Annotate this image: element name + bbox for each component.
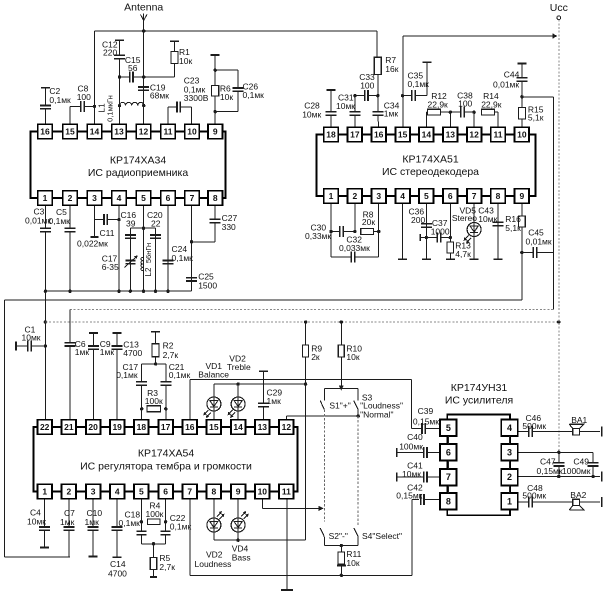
capacitor C13	[111, 333, 142, 420]
svg-text:6: 6	[448, 191, 453, 201]
capacitor C39	[413, 406, 441, 434]
svg-text:1мк: 1мк	[384, 108, 399, 118]
switch S3	[354, 388, 403, 419]
svg-text:22: 22	[151, 219, 161, 229]
svg-text:10к: 10к	[179, 56, 192, 66]
svg-text:16: 16	[185, 422, 195, 432]
op-amp U4 KR174UN31 amplifier IC	[440, 382, 518, 515]
svg-text:5,1к: 5,1к	[528, 113, 544, 123]
capacitor C49	[562, 456, 599, 476]
capacitor C12	[102, 39, 125, 127]
svg-text:13: 13	[258, 422, 268, 432]
svg-text:10мк: 10мк	[302, 110, 321, 120]
svg-text:6: 6	[166, 193, 171, 203]
svg-text:КР174ХА51: КР174ХА51	[402, 154, 458, 166]
svg-text:100к: 100к	[146, 509, 164, 519]
capacitor C37	[420, 218, 450, 243]
svg-text:0,1мкГн: 0,1мкГн	[106, 95, 115, 122]
wire S3 box top bar	[324, 386, 358, 391]
svg-text:2: 2	[68, 193, 73, 203]
svg-text:3300В: 3300В	[184, 93, 209, 103]
svg-text:1мк: 1мк	[100, 347, 115, 357]
svg-text:BA2: BA2	[570, 490, 586, 500]
svg-text:3: 3	[507, 447, 512, 457]
capacitor C29	[258, 371, 283, 420]
svg-text:0,1мк: 0,1мк	[169, 370, 191, 380]
svg-text:S1"+": S1"+"	[329, 401, 350, 411]
LED VD4	[231, 499, 251, 562]
svg-text:14: 14	[233, 422, 243, 432]
svg-text:1: 1	[329, 191, 334, 201]
svg-text:0,1мк: 0,1мк	[243, 90, 265, 100]
capacitor C10	[85, 499, 103, 556]
wire pin4 line	[118, 205, 120, 291]
node arrow into Ucc rail	[553, 33, 558, 38]
capacitor C38	[450, 90, 476, 127]
svg-text:11: 11	[164, 127, 173, 137]
svg-text:0,15мк: 0,15мк	[537, 466, 563, 476]
svg-text:100: 100	[360, 80, 374, 90]
svg-text:1мк: 1мк	[267, 396, 282, 406]
svg-text:0,01мк: 0,01мк	[526, 236, 552, 246]
capacitor C48	[518, 483, 572, 508]
svg-text:10мк: 10мк	[478, 214, 497, 224]
svg-text:3: 3	[91, 487, 96, 497]
svg-text:16: 16	[40, 127, 50, 137]
svg-text:4: 4	[507, 423, 512, 433]
svg-text:12: 12	[469, 130, 479, 140]
svg-text:3: 3	[376, 191, 381, 201]
wire pin3 rail	[518, 451, 594, 463]
capacitor C17b bracket	[116, 362, 190, 420]
resistor R15	[518, 104, 543, 127]
svg-text:7: 7	[472, 191, 477, 201]
svg-text:10мк: 10мк	[22, 332, 41, 342]
svg-text:330: 330	[222, 222, 236, 232]
capacitor C6	[65, 339, 90, 420]
capacitor C1	[16, 324, 45, 351]
wire bus V1 (left edge)	[5, 253, 522, 558]
svg-text:0,1мк: 0,1мк	[49, 216, 71, 226]
svg-text:1: 1	[42, 487, 47, 497]
capacitor C4	[27, 499, 50, 547]
resistor R9	[303, 322, 323, 540]
svg-text:Treble: Treble	[227, 362, 251, 372]
inductor L2	[141, 243, 153, 277]
wire pin12 to S3	[286, 410, 360, 420]
wire bus V2	[70, 253, 553, 343]
svg-text:9: 9	[236, 487, 241, 497]
switch S4	[354, 528, 402, 546]
capacitor C24	[163, 205, 194, 291]
svg-text:5: 5	[424, 191, 429, 201]
svg-text:1мк: 1мк	[60, 517, 75, 527]
capacitor C15	[120, 55, 144, 83]
svg-text:1: 1	[43, 193, 48, 203]
capacitor C20	[147, 210, 163, 238]
capacitor C44	[493, 64, 527, 108]
svg-text:10мк: 10мк	[27, 517, 46, 527]
svg-text:39: 39	[126, 219, 136, 229]
capacitor C19	[138, 83, 169, 101]
svg-text:Balance: Balance	[198, 369, 229, 379]
resistor R13	[446, 204, 471, 259]
svg-text:ИС радиоприемника: ИС радиоприемника	[88, 167, 188, 179]
capacitor C2	[40, 86, 71, 124]
svg-text:10: 10	[258, 487, 268, 497]
LED VD1	[198, 361, 229, 420]
resistor R7	[374, 55, 398, 96]
svg-text:12: 12	[139, 127, 149, 137]
svg-text:20: 20	[88, 422, 98, 432]
svg-text:16к: 16к	[385, 64, 398, 74]
power Ucc terminal	[550, 2, 568, 20]
svg-text:"Normal": "Normal"	[360, 410, 393, 420]
svg-text:0,33мк: 0,33мк	[305, 231, 331, 241]
resistor R6	[211, 55, 234, 124]
capacitor C18	[119, 499, 147, 544]
svg-text:14: 14	[422, 130, 432, 140]
svg-text:19: 19	[112, 422, 122, 432]
svg-text:100к: 100к	[145, 396, 163, 406]
capacitor C40	[397, 432, 441, 458]
capacitor C31	[336, 93, 360, 128]
svg-text:2: 2	[67, 487, 72, 497]
svg-text:21: 21	[64, 422, 74, 432]
svg-text:11: 11	[494, 130, 503, 140]
wire switch gang right	[357, 416, 359, 527]
LED VD5	[452, 204, 481, 259]
svg-text:L2: L2	[144, 267, 153, 276]
capacitor C42	[396, 482, 440, 505]
svg-text:7: 7	[190, 193, 195, 203]
svg-text:4: 4	[117, 193, 122, 203]
svg-text:4700: 4700	[123, 348, 142, 358]
svg-text:6: 6	[446, 447, 451, 457]
LED VD2 loudness	[195, 499, 232, 569]
svg-text:68мк: 68мк	[150, 91, 169, 101]
capacitor C43	[478, 204, 503, 259]
svg-text:4: 4	[115, 487, 120, 497]
capacitor C35	[401, 62, 432, 101]
wire C44 to V2 drop	[522, 97, 553, 253]
svg-text:0,022мк: 0,022мк	[77, 239, 108, 249]
capacitor C34	[372, 96, 399, 128]
svg-text:100мк: 100мк	[399, 441, 423, 451]
wire LED top rail to R9	[214, 382, 307, 385]
svg-text:5: 5	[139, 487, 144, 497]
svg-text:Stereo: Stereo	[452, 213, 477, 223]
svg-text:18: 18	[137, 422, 147, 432]
resistor R10	[338, 322, 362, 386]
svg-text:C11: C11	[100, 228, 115, 238]
capacitor C33	[355, 72, 380, 101]
svg-text:10мк: 10мк	[336, 101, 355, 111]
svg-text:Antenna: Antenna	[124, 2, 163, 14]
resistor R1	[144, 41, 193, 77]
svg-text:56: 56	[128, 63, 138, 73]
capacitor C9	[88, 333, 114, 420]
svg-text:7: 7	[187, 487, 192, 497]
svg-text:11: 11	[282, 487, 291, 497]
wire pin10 select line	[262, 499, 323, 511]
svg-text:56нГн: 56нГн	[144, 243, 153, 263]
wire switch common	[324, 544, 358, 547]
svg-text:0,1мк: 0,1мк	[170, 522, 192, 532]
capacitor C3	[25, 205, 51, 420]
svg-text:0,1мк: 0,1мк	[408, 79, 430, 89]
resistor R8	[361, 209, 381, 234]
wire pin11 down	[281, 499, 293, 590]
capacitor C41	[397, 461, 441, 483]
speaker BA1	[569, 415, 602, 437]
svg-text:10к: 10к	[346, 558, 359, 568]
trimmer capacitor C17	[102, 254, 138, 273]
resistor R2	[151, 332, 178, 366]
svg-text:10: 10	[517, 130, 527, 140]
svg-text:КР174УН31: КР174УН31	[451, 382, 508, 394]
wire top rail to R7	[95, 31, 378, 124]
capacitor C26	[215, 70, 264, 112]
svg-text:0,1мк: 0,1мк	[119, 518, 141, 528]
capacitor C23	[168, 76, 209, 125]
svg-text:8: 8	[446, 496, 451, 506]
svg-text:10к: 10к	[220, 92, 233, 102]
resistor R4	[140, 501, 168, 525]
wire pin16 audio line	[190, 379, 421, 428]
capacitor C36	[409, 204, 432, 259]
capacitor C28	[302, 90, 336, 127]
capacitor C45	[522, 228, 553, 258]
svg-text:2,7к: 2,7к	[159, 562, 175, 572]
svg-text:2к: 2к	[311, 352, 320, 362]
capacitor C47	[537, 452, 565, 476]
svg-text:КР174ХА34: КР174ХА34	[110, 155, 166, 167]
svg-text:6-35: 6-35	[102, 262, 119, 272]
svg-text:10: 10	[187, 127, 197, 137]
capacitor C11	[77, 205, 121, 248]
svg-text:16: 16	[374, 130, 384, 140]
svg-text:Loudness: Loudness	[195, 559, 232, 569]
svg-text:S4"Select": S4"Select"	[362, 531, 402, 541]
resistor R14	[481, 91, 502, 127]
svg-text:1: 1	[507, 496, 512, 506]
svg-text:12: 12	[282, 422, 292, 432]
svg-text:8: 8	[212, 487, 217, 497]
svg-text:ИС усилителя: ИС усилителя	[445, 394, 513, 406]
svg-text:0,01мк: 0,01мк	[25, 216, 51, 226]
svg-text:1мк: 1мк	[85, 517, 100, 527]
svg-text:S2"-": S2"-"	[329, 531, 348, 541]
node supply tap	[44, 320, 47, 347]
svg-text:18: 18	[326, 130, 336, 140]
svg-text:0,15мк: 0,15мк	[413, 416, 439, 426]
capacitor C7	[60, 499, 75, 557]
svg-text:Ucc: Ucc	[550, 2, 568, 14]
svg-text:5,1к: 5,1к	[505, 223, 521, 233]
svg-text:200: 200	[411, 215, 425, 225]
svg-text:0,1мк: 0,1мк	[49, 95, 71, 105]
capacitor C8	[70, 84, 96, 125]
capacitor C27	[192, 205, 238, 242]
svg-text:9: 9	[213, 127, 218, 137]
wire pin4 stub	[398, 204, 407, 259]
svg-text:5: 5	[446, 423, 451, 433]
svg-text:C44: C44	[504, 70, 520, 80]
svg-text:500мк: 500мк	[522, 421, 546, 431]
wire antenna lead	[141, 14, 147, 128]
wire ground bus of U1	[45, 290, 191, 293]
svg-text:15: 15	[398, 130, 408, 140]
wire bus V3	[45, 320, 560, 323]
power Ucc rail	[558, 20, 560, 453]
svg-text:Bass: Bass	[232, 552, 251, 562]
svg-text:100: 100	[77, 92, 91, 102]
svg-text:5: 5	[141, 193, 146, 203]
svg-text:C14: C14	[110, 559, 126, 569]
svg-text:C39: C39	[418, 406, 434, 416]
svg-text:0,01мк: 0,01мк	[493, 79, 519, 89]
svg-text:22: 22	[40, 422, 50, 432]
capacitor C30	[305, 204, 357, 257]
svg-text:0,033мк: 0,033мк	[339, 243, 370, 253]
svg-text:220: 220	[103, 48, 117, 58]
resistor R16	[505, 204, 525, 254]
svg-text:1000мк: 1000мк	[562, 466, 591, 476]
svg-text:22,9к: 22,9к	[481, 100, 502, 110]
svg-text:1мк: 1мк	[75, 347, 90, 357]
switch S1	[320, 388, 351, 410]
svg-text:КР174ХА54: КР174ХА54	[138, 448, 194, 460]
capacitor C46	[518, 413, 572, 437]
svg-text:4: 4	[400, 191, 405, 201]
svg-text:500мк: 500мк	[522, 491, 546, 501]
op-amp U2 KR174XA51 stereo decoder IC	[317, 127, 536, 203]
op-amp U1 KR174XA34 radio IC	[31, 124, 226, 205]
svg-text:2: 2	[353, 191, 358, 201]
capacitor C22	[161, 499, 192, 544]
switch S2	[320, 528, 348, 546]
svg-text:0,1мк: 0,1мк	[172, 253, 194, 263]
svg-text:1000: 1000	[431, 227, 450, 237]
svg-text:15: 15	[65, 127, 75, 137]
speaker BA2	[569, 490, 602, 510]
wire switch gang left	[323, 410, 325, 522]
node Antenna label	[124, 2, 163, 14]
svg-text:C47: C47	[540, 456, 556, 466]
wire pin7 audio path	[190, 499, 419, 577]
svg-text:ИС регулятора тембра и громкос: ИС регулятора тембра и громкости	[80, 461, 252, 473]
resistor R11	[337, 546, 362, 576]
LED VD2 treble	[227, 354, 251, 420]
svg-text:17: 17	[350, 130, 360, 140]
svg-text:20к: 20к	[362, 217, 375, 227]
capacitor C5	[49, 205, 76, 291]
svg-text:17: 17	[161, 422, 171, 432]
capacitor C14	[108, 499, 127, 578]
svg-text:8: 8	[213, 193, 218, 203]
svg-text:8: 8	[496, 191, 501, 201]
svg-text:1500: 1500	[198, 281, 217, 291]
svg-text:10к: 10к	[346, 352, 359, 362]
svg-text:100: 100	[458, 99, 472, 109]
op-amp U3 KR174XA54 tone-volume IC	[34, 420, 298, 499]
svg-text:9: 9	[520, 191, 525, 201]
capacitor C16	[121, 210, 137, 238]
svg-text:3: 3	[92, 193, 97, 203]
svg-text:2: 2	[507, 472, 512, 482]
svg-text:2,7к: 2,7к	[163, 350, 179, 360]
svg-text:0,15мк: 0,15мк	[396, 490, 422, 500]
svg-text:13: 13	[114, 127, 124, 137]
svg-text:4,7к: 4,7к	[455, 249, 471, 259]
svg-text:0,1мк: 0,1мк	[116, 370, 138, 380]
svg-text:4700: 4700	[108, 569, 127, 579]
wire lower LED rail	[214, 539, 306, 542]
svg-text:BA1: BA1	[571, 415, 587, 425]
capacitor C25	[186, 205, 217, 291]
resistor R3	[140, 388, 168, 412]
svg-text:13: 13	[446, 130, 456, 140]
resistor R12	[426, 91, 452, 127]
svg-text:10мк: 10мк	[402, 469, 421, 479]
svg-text:22,9к: 22,9к	[428, 100, 449, 110]
inductor L1	[97, 95, 146, 122]
wire pin5 tank split	[130, 205, 155, 291]
wire Ucc feed to pin15 of U2	[403, 36, 555, 127]
capacitor C32	[331, 204, 379, 262]
svg-text:6: 6	[163, 487, 168, 497]
svg-text:14: 14	[90, 127, 100, 137]
resistor R5	[141, 542, 175, 577]
svg-text:7: 7	[446, 472, 451, 482]
wire pin2 rail	[518, 472, 602, 482]
svg-text:15: 15	[209, 422, 219, 432]
svg-text:C49: C49	[573, 456, 589, 466]
svg-text:ИС стереодекодера: ИС стереодекодера	[382, 166, 479, 178]
